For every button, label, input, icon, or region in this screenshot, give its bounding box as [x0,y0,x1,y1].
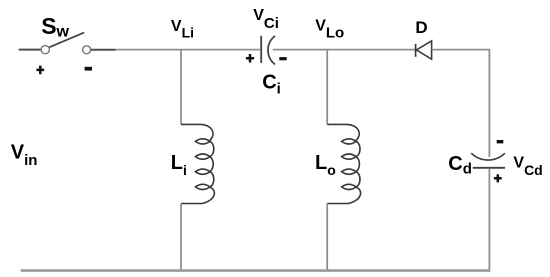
wire right vertical upper [488,50,490,157]
inductor Lo bottom lead [326,204,328,271]
capacitor Ci flat plate [260,36,262,63]
svg-text:Sw: Sw [41,13,69,41]
svg-text:Cd: Cd [448,153,472,177]
switch Sw arm [50,33,85,48]
capacitor Cd curved plate [471,153,505,160]
wire switch to Ci plate [91,49,116,51]
label + at Cd [494,174,502,182]
inductor Lo top lead [326,50,328,125]
capacitor Ci curved plate [268,36,275,65]
switch Sw pole circle left [41,46,49,54]
diode D triangle [416,41,431,59]
wire left stub to switch [19,49,42,51]
wire diode to right corner [432,49,491,51]
svg-text:Ci: Ci [262,71,281,97]
svg-text:D: D [415,18,427,37]
svg-text:VLo: VLo [315,17,344,41]
wire to Ci plate [116,49,261,51]
wire right vertical lower [488,169,490,271]
switch Sw pole circle right [83,46,91,54]
wire bottom [21,269,491,272]
label + at switch [36,66,44,75]
wire Ci to diode [273,49,415,51]
label + at Ci [246,54,254,63]
inductor Li top lead [180,50,182,125]
inductor Li coil [181,124,214,203]
svg-text:Lo: Lo [315,152,336,178]
svg-text:VCi: VCi [253,7,279,32]
svg-text:Li: Li [171,152,187,178]
diode D cathode bar [415,44,417,57]
svg-text:VLi: VLi [171,18,194,41]
label - at switch [85,67,92,71]
label - at Ci [279,57,286,60]
inductor Lo coil [327,124,360,203]
inductor Li bottom lead [180,204,182,271]
label - at Cd [497,140,504,143]
svg-text:VCd: VCd [513,155,542,178]
capacitor Cd flat plate [473,167,505,169]
svg-text:Vin: Vin [11,141,38,168]
